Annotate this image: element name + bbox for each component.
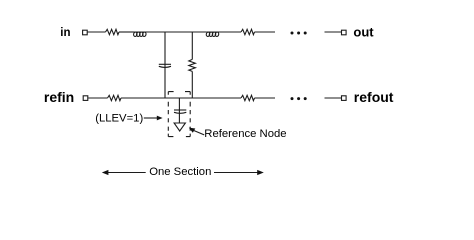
wire ref bus left — [121, 97, 241, 99]
reference node triangle — [174, 123, 185, 131]
svg-text:refin: refin — [44, 89, 74, 105]
capacitor C2 — [174, 110, 186, 113]
terminal square refin — [83, 96, 88, 101]
svg-text:refout: refout — [354, 89, 394, 105]
svg-text:One Section: One Section — [149, 166, 211, 178]
wire to refout terminal — [325, 97, 342, 99]
wire R1 to L1 — [119, 31, 134, 33]
svg-text:in: in — [60, 27, 70, 39]
wire shunt resistor branch lower — [191, 71, 193, 98]
arrow one-section right — [214, 170, 264, 175]
resistor R4 — [241, 95, 255, 100]
resistor R3 — [108, 95, 122, 100]
wire to out terminal — [325, 31, 342, 33]
wire shunt resistor branch upper — [191, 32, 193, 59]
resistor R1 — [106, 29, 120, 34]
inductor L2 — [206, 32, 219, 37]
terminal square in — [83, 30, 88, 35]
ellipsis dots top — [291, 32, 307, 35]
terminal square out — [342, 30, 347, 35]
wire in to R1 — [88, 31, 106, 33]
resistor R2 — [241, 29, 255, 34]
dashed box LLEV — [168, 92, 190, 137]
arrow LLEV pointer — [144, 116, 163, 121]
wire L2 to R2 — [206, 31, 241, 33]
wire refin to R3 — [88, 97, 107, 99]
wire shunt capacitor branch — [164, 32, 166, 98]
svg-text:Reference Node: Reference Node — [204, 128, 286, 140]
arrow reference node pointer — [189, 128, 204, 135]
wire reference branch — [178, 98, 180, 123]
resistor R5 — [189, 59, 196, 71]
ellipsis dots bottom — [291, 97, 307, 100]
arrow one-section left — [102, 170, 146, 175]
svg-text:out: out — [353, 24, 374, 39]
inductor L1 — [133, 32, 146, 37]
wire ref bus right — [255, 97, 276, 99]
terminal square refout — [342, 96, 347, 101]
wire top bus L1 to L2 — [134, 31, 207, 33]
capacitor C1 — [159, 64, 171, 67]
wire R2 to break — [255, 31, 276, 33]
svg-text:(LLEV=1): (LLEV=1) — [95, 113, 143, 125]
